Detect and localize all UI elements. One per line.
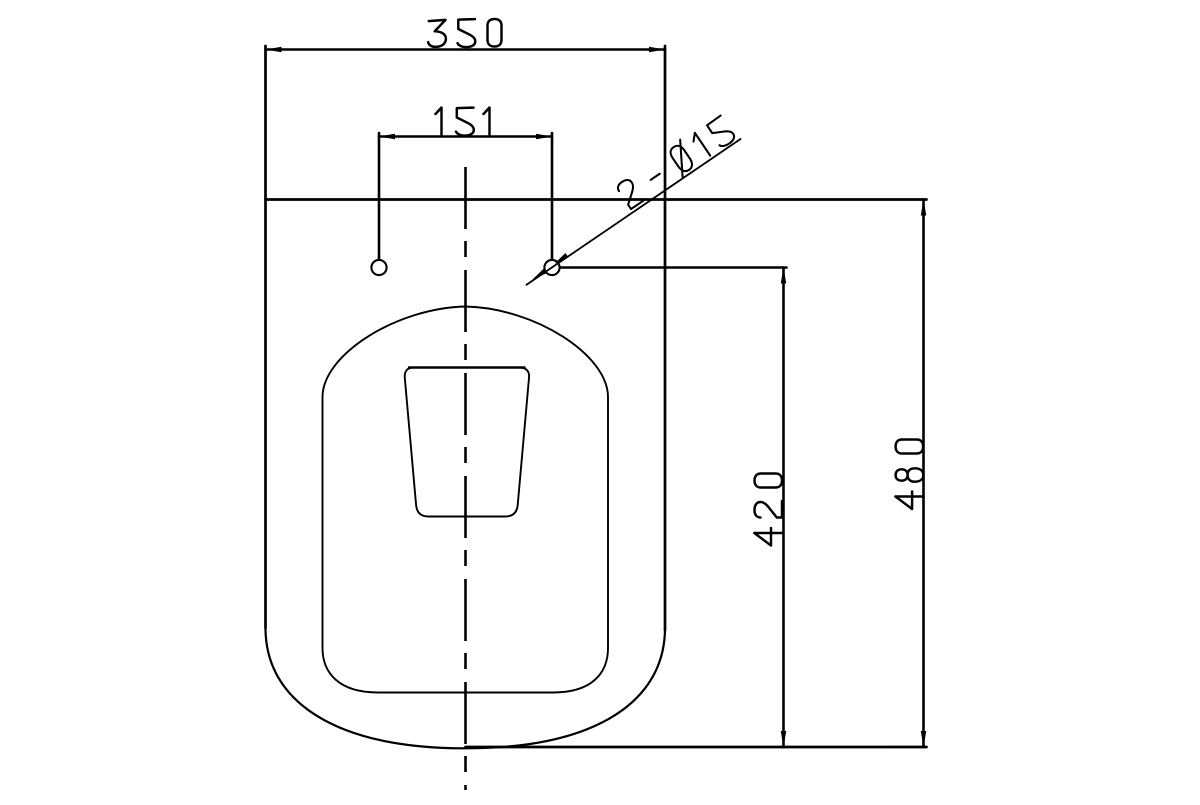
leader arrow at hole — [553, 253, 568, 266]
centerline (vertical dashed) — [464, 167, 467, 790]
text 420 (rotated) — [754, 474, 782, 546]
dim 151 right extension line — [551, 133, 554, 259]
dim 480 bottom arrow — [921, 731, 927, 747]
text 350 — [428, 19, 501, 47]
body left edge + 350 left extension line — [264, 46, 267, 628]
dim 151 line — [379, 135, 552, 138]
trapezoid water area — [405, 368, 529, 517]
dim 350 right arrow — [649, 47, 665, 53]
dim 420 line — [782, 268, 785, 748]
body top edge + 480 top extension line — [266, 198, 927, 201]
hole left — [371, 260, 386, 275]
body right edge + 350 right extension line — [664, 46, 667, 630]
dim 151 left arrow — [379, 134, 395, 140]
leader second arrow below hole — [531, 269, 546, 282]
dim 151 right arrow — [536, 134, 552, 140]
dim 151 left extension line — [378, 133, 381, 259]
inner seat ring — [323, 307, 609, 693]
hole right — [544, 260, 559, 275]
dim 350 left arrow — [266, 47, 282, 53]
dim 420 extension line (hole to dim line) — [561, 266, 787, 269]
text 2-O15 (rotated along leader) — [614, 113, 737, 211]
text 480 (rotated) — [895, 440, 923, 510]
dim 480 line — [922, 200, 925, 748]
dim 420 top arrow — [781, 268, 787, 284]
text 151 — [436, 108, 490, 136]
bottom extension line — [466, 746, 927, 749]
dim 420 bottom arrow — [781, 731, 787, 747]
dim 350 line — [266, 48, 666, 51]
body bottom curve — [266, 628, 666, 748]
dim 480 top arrow — [921, 200, 927, 216]
trapezoid top edge emphasis — [409, 366, 525, 368]
leader line 2-O15 — [527, 139, 741, 285]
